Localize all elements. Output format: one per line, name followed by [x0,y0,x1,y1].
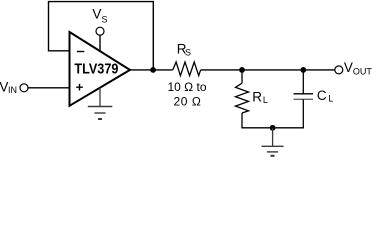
node junction RL [239,67,245,73]
svg-text:L: L [263,95,268,105]
svg-text:TLV379: TLV379 [74,62,118,78]
terminal VS [96,27,104,35]
resistor RS [173,41,201,75]
svg-text:V: V [92,7,101,22]
wire VIN to non-inverting input [28,87,69,89]
wire RL to ground rail [241,113,243,128]
wire to RL [241,70,243,83]
wire RS to VOUT [201,69,335,71]
wire VS supply to op-amp [99,35,101,52]
svg-text:L: L [328,94,333,104]
pin - (inverting input marker) [77,51,84,53]
ground load [262,128,284,156]
wire feedback loop from output to inverting input [49,2,154,70]
svg-text:R: R [252,89,262,104]
svg-text:IN: IN [8,85,17,95]
wire op-amp output to RS [129,69,173,71]
svg-text:C: C [317,88,327,103]
terminal VIN [20,84,28,92]
wire ground rail RL to CL [241,127,304,129]
svg-text:OUT: OUT [353,66,372,76]
ground op-amp [88,88,113,120]
node junction CL [300,67,306,73]
terminal VOUT [335,66,343,74]
op-amp U1 TLV379 [70,32,131,106]
svg-text:20 Ω: 20 Ω [174,94,201,108]
capacitor CL [294,70,334,128]
resistor RL [236,83,268,113]
svg-text:S: S [185,47,191,57]
pin + (non-inverting input marker) [76,86,83,88]
svg-text:10 Ω to: 10 Ω to [168,80,207,94]
svg-text:V: V [344,60,353,75]
svg-text:S: S [102,15,108,25]
node junction ground rail [270,125,276,131]
node junction feedback/output [150,67,156,73]
